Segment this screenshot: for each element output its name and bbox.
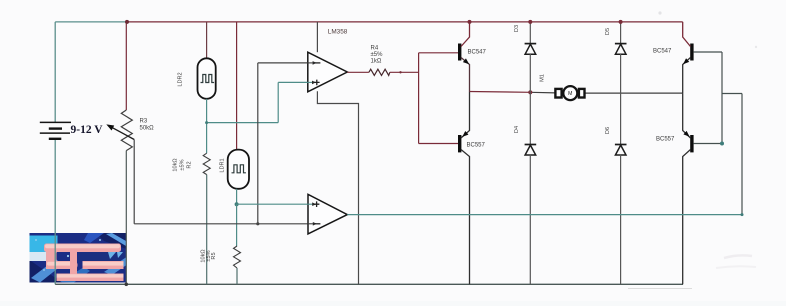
svg-text:D6: D6: [605, 127, 611, 134]
node D5 top: [619, 20, 623, 24]
wire: LDR2 branch from rail: [206, 22, 208, 58]
transistor Q3 BC547 (right top): [681, 22, 693, 93]
svg-text:BC547: BC547: [468, 50, 487, 56]
svg-text:10kΩ: 10kΩ: [173, 158, 179, 171]
wire: motor line to motor: [530, 91, 555, 94]
svg-text:±5%: ±5%: [180, 159, 186, 170]
node reference junction: [256, 222, 259, 225]
svg-text:D4: D4: [514, 126, 520, 133]
op-amp U1:B LM358: [307, 194, 347, 234]
wire: bottom ground rail: [55, 283, 683, 285]
wire: LDR1 bottom to node: [236, 189, 238, 204]
node left collector to rail: [468, 20, 472, 24]
wire: battery left vertical top: [54, 22, 56, 122]
wire: R2 bottom to ground: [206, 175, 208, 285]
svg-text:LDR2: LDR2: [178, 72, 184, 86]
potentiometer R3 zigzag: [121, 110, 132, 151]
node teal riser corner: [741, 213, 744, 216]
wire: R3 branch from rail: [125, 22, 127, 110]
wire: D5 to motor line: [620, 54, 622, 93]
wire: top rail left (battery+ to R3 node): [55, 21, 127, 23]
svg-text:BC557: BC557: [467, 143, 486, 149]
wire: motor line left: [470, 91, 531, 94]
LDR1 photoresistor: [228, 150, 249, 189]
svg-text:D3: D3: [514, 25, 520, 32]
svg-text:LDR1: LDR1: [220, 158, 226, 172]
svg-text:1kΩ: 1kΩ: [371, 59, 382, 65]
wire: motor line to D6: [620, 93, 622, 144]
wire: battery left vertical bottom: [54, 139, 56, 284]
wire: base bus tap to riser: [722, 94, 742, 215]
faint scan smudge: [628, 288, 692, 290]
wire: node to R5: [236, 204, 238, 246]
motor M1: [555, 86, 584, 100]
node motor line / D3-D4: [528, 90, 532, 94]
transistor Q1 BC547 (left top): [458, 22, 471, 92]
svg-text:50kΩ: 50kΩ: [140, 126, 155, 132]
wire: D3 to motor line: [529, 54, 531, 92]
transistor Q4 BC557 (right bottom): [683, 93, 694, 284]
diode D4: [525, 145, 537, 156]
svg-text:R4: R4: [371, 46, 379, 52]
wire: D4 to ground: [529, 155, 531, 284]
wire: base drive vertical left pair: [418, 53, 420, 144]
svg-text:9-12 V: 9-12 V: [71, 124, 104, 136]
diode D6: [615, 145, 627, 156]
diode D5: [615, 44, 627, 55]
wire: LDR1 branch from rail: [236, 22, 238, 150]
wire: op-amp2 output to right bases: [347, 214, 742, 216]
node right base bus bottom: [720, 142, 724, 146]
svg-text:BC557: BC557: [656, 137, 675, 143]
resistor R2 zigzag: [203, 153, 210, 174]
wire: R3 bottom to ground: [125, 151, 127, 285]
wire: op-amp1 output to R4: [347, 71, 369, 73]
wire: right base bus vertical: [721, 52, 723, 144]
R3 wiper arrow: [108, 125, 134, 139]
transistor Q2 BC557 (left bottom): [458, 92, 470, 285]
resistor R5 zigzag: [234, 246, 241, 268]
svg-text:D5: D5: [605, 28, 611, 35]
svg-text:M: M: [568, 91, 572, 97]
wire: motor right to right emitters: [585, 92, 683, 94]
wire: op-amp1 - input from reference line: [258, 63, 308, 224]
wire: D6 to ground: [620, 155, 622, 284]
wire: R5 bottom to ground: [236, 268, 238, 284]
node tap junction: [205, 121, 208, 124]
wire: right base to vertical bus (bottom): [694, 143, 722, 145]
svg-text:R3: R3: [140, 119, 148, 125]
wire: LDR2/R2 tap to op-amp1 + input: [207, 82, 308, 122]
wire: base to BC557 left: [419, 143, 458, 145]
wire: right base to vertical bus (top): [694, 51, 722, 53]
LDR2 photoresistor: [198, 58, 216, 99]
wire: op-amp2 + input from LDR1 node: [237, 203, 308, 205]
svg-text:LM358: LM358: [328, 29, 348, 36]
wire: op-amp1 V- to ground: [317, 91, 358, 284]
wire: reference line wiper to op-amp2 - input: [134, 223, 308, 225]
node tick on R4 output wire: [399, 71, 401, 73]
node rail R3 top junction: [125, 20, 129, 24]
wire: top rail main V+: [127, 21, 683, 23]
wire: LDR2 bottom to R2: [206, 99, 208, 153]
faint scan specks: [658, 11, 661, 14]
svg-text:R5: R5: [211, 252, 217, 259]
wire: D3 column top: [529, 22, 531, 43]
wire: base to BC547 left: [419, 52, 458, 54]
op-amp U1:A LM358: [307, 52, 348, 92]
svg-text:±5%: ±5%: [371, 52, 384, 58]
logo watermark: [30, 233, 127, 283]
svg-text:BC547: BC547: [653, 49, 672, 55]
node LDR1/R5 junction: [235, 202, 239, 206]
svg-text:M1: M1: [540, 74, 546, 82]
wire: D5 column top: [620, 22, 622, 43]
wire: op-amp1 V+ to rail: [316, 22, 318, 52]
node D3 top: [528, 20, 532, 24]
diode D3: [525, 44, 537, 55]
node R3 bottom rail junction: [125, 283, 129, 287]
svg-text:R2: R2: [187, 161, 193, 168]
battery BT1 9-12V: [40, 122, 71, 138]
wire: motor line to D4: [529, 92, 531, 144]
wire: R4 to base node: [390, 71, 419, 73]
resistor R4 zigzag: [369, 69, 390, 75]
wire: R3 wiper down: [133, 140, 135, 224]
bottom page tint strip: [0, 301, 786, 306]
